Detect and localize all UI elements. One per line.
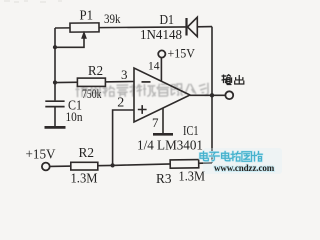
svg-text:1.3M: 1.3M <box>179 169 206 184</box>
resistor R3 body <box>170 160 199 169</box>
wire: right bus <box>211 27 213 163</box>
svg-text:D1: D1 <box>160 13 175 28</box>
ground (pin 7) <box>153 133 173 136</box>
terminal +15V bottom <box>42 163 50 171</box>
resistor R2 (750k) body <box>77 78 105 86</box>
svg-text:2: 2 <box>117 96 124 111</box>
svg-text:10n: 10n <box>66 109 83 124</box>
node: bottom junction <box>111 163 115 167</box>
gray company watermark 杭州格睿科技有限公司 <box>75 83 208 99</box>
diode D1 cathode bar <box>185 18 187 36</box>
svg-text:P1: P1 <box>80 9 94 24</box>
node: bus/R2 junction <box>53 80 57 84</box>
svg-text:14: 14 <box>148 58 160 72</box>
top edge scan smudges <box>4 1 62 2</box>
wire: C1 to ground <box>54 107 56 127</box>
potentiometer P1 body <box>70 23 99 32</box>
svg-text:3: 3 <box>121 67 128 82</box>
paper background <box>0 0 284 186</box>
svg-text:IC1: IC1 <box>183 123 199 138</box>
capacitor C1 plates <box>45 101 64 106</box>
resistor R2 (1.3M) body <box>71 162 98 170</box>
op-amp plus marker <box>138 105 147 114</box>
svg-text:1.3M: 1.3M <box>71 171 98 186</box>
pin 7 wire <box>162 108 164 133</box>
terminal +15V (supply) <box>158 50 165 57</box>
label 输出 (output) <box>222 75 244 85</box>
op-amp minus marker <box>142 81 151 83</box>
svg-text:750k: 750k <box>82 86 102 101</box>
wire: bottom net <box>50 163 212 167</box>
blue watermark 电子电路图站 <box>203 148 282 174</box>
svg-text:1N4148: 1N4148 <box>140 27 182 42</box>
P1 wiper arrow <box>82 32 87 39</box>
svg-text:7: 7 <box>152 115 159 130</box>
svg-text:www.cndzz.com: www.cndzz.com <box>214 163 275 173</box>
op-amp IC1 triangle <box>134 68 190 122</box>
svg-text:+15V: +15V <box>26 148 56 163</box>
wire: op-amp output to terminal <box>190 94 225 96</box>
wire: pin 2 to bottom junction <box>113 110 134 165</box>
svg-text:R3: R3 <box>156 172 172 186</box>
terminal output <box>225 91 233 99</box>
wire: R2 row to op-amp pin 3 <box>55 82 134 83</box>
svg-text:1/4 LM3401: 1/4 LM3401 <box>137 139 203 154</box>
ground (C1) <box>45 126 66 129</box>
svg-text:+15V: +15V <box>168 46 196 61</box>
wire: left bus <box>54 28 56 100</box>
node: output junction <box>210 93 214 97</box>
svg-text:R2: R2 <box>79 146 95 161</box>
wire: wiper to left bus <box>55 38 84 47</box>
node: bus/wiper junction <box>53 45 57 49</box>
wire: top net (left corner to diode, diode to right corner) <box>55 27 212 28</box>
diode D1 triangle <box>188 17 198 36</box>
svg-text:R2: R2 <box>88 64 103 79</box>
pin 14 wire <box>160 58 162 82</box>
svg-text:39k: 39k <box>104 11 121 26</box>
